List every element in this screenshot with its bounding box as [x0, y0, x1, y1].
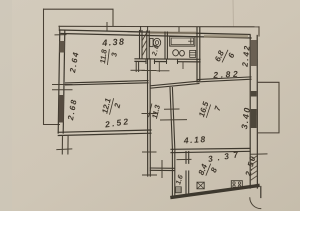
- washbasin: [173, 50, 179, 56]
- door jamb marks: [145, 59, 147, 63]
- vent stub above bath: [178, 27, 180, 32]
- living room bottom wall: [171, 147, 250, 150]
- closet left wall: [171, 152, 173, 197]
- thin outline: top-right corner drop: [258, 27, 260, 36]
- kitchen sink: [197, 182, 204, 189]
- scan fold line top: [232, 0, 235, 27]
- toilet: bowl: [153, 38, 160, 47]
- WC and bath bottom wall with door gaps: [135, 58, 200, 61]
- thin outline: upper-left annex rectangle: [44, 9, 114, 26]
- balcony outline: [258, 82, 280, 133]
- WC left wall: [146, 31, 148, 59]
- toilet: tank: [150, 38, 153, 46]
- thin outline: left outer boundary: [44, 9, 60, 124]
- room 2 bottom wall: [58, 130, 151, 132]
- kitchen label 8.4 / 8: [197, 160, 220, 180]
- WC divider stub below wall: [158, 62, 160, 72]
- left exterior wall (double line): [58, 30, 60, 133]
- room 6 label 6.8 / 6: [213, 46, 237, 68]
- room 3 door stub below WC with tick: [135, 62, 137, 72]
- bath door jamb stub: [182, 62, 184, 69]
- wall stubs above top wall at shaft: [140, 27, 142, 32]
- ticks on left wall: [53, 84, 73, 86]
- closet vent square: [175, 187, 181, 193]
- corner tick top-left: [55, 34, 66, 36]
- gas stove: [231, 181, 242, 188]
- svg-text:11.8: 11.8: [98, 48, 109, 64]
- bath right wall / room 6 left wall: [196, 28, 198, 81]
- room 6 bottom wall: [197, 77, 251, 80]
- room 3 right wall / shaft left wall: [139, 31, 141, 59]
- kitchen left wall upper segment: [185, 152, 187, 164]
- window W2 in left wall (room 2): [59, 95, 64, 123]
- tick at kitchen left wall: [177, 158, 191, 160]
- svg-text:4.18: 4.18: [182, 134, 207, 146]
- hall label 11.3: [149, 103, 163, 120]
- kitchen bottom wall (thick, sloped): [172, 186, 258, 198]
- balcony door block right wall: [251, 91, 257, 97]
- hall west wall (long vertical): [147, 59, 149, 176]
- entry door jamb and swing arc at bottom right: [260, 187, 262, 198]
- window room 6 in right wall: [251, 40, 257, 66]
- room 3 label 11.8 / 3: [98, 48, 119, 66]
- bathtub: [170, 37, 195, 47]
- wall between room 3 and room 2 (double line): [66, 81, 149, 83]
- room 7 label 16.5 / 7: [197, 100, 223, 122]
- svg-text:2.82: 2.82: [212, 69, 240, 80]
- bathtub drain: [189, 40, 193, 42]
- tick crossing corridor wall: [161, 161, 163, 178]
- kitchen window hatched block: [251, 156, 257, 180]
- top wall (double line): [60, 30, 250, 35]
- kitchen left wall lower segment: [185, 171, 187, 194]
- ticks on hall wall: [142, 70, 156, 72]
- window living room in right wall: [251, 109, 257, 128]
- room 7 top wall: [150, 81, 199, 86]
- wall stub below room2 bottom-left corner with tick: [61, 136, 63, 155]
- dark fill in top wall over bath: [150, 32, 196, 35]
- thin connector at top-left wall corner: [58, 26, 60, 30]
- room 7 left wall: [170, 88, 173, 151]
- corridor bottom wall: [150, 167, 174, 169]
- svg-text:4.38: 4.38: [101, 36, 126, 48]
- window W1 in left wall (room 3): [59, 41, 64, 53]
- tick on top thin line: [106, 23, 108, 31]
- ticks on room 7 left wall: [165, 108, 180, 110]
- WC / bath divider wall: [164, 32, 166, 59]
- shading inside top wall over room 6: [204, 35, 248, 38]
- tick right of wall at kitchen top corner: [251, 153, 267, 155]
- room 2 label 12.1 / 2: [100, 96, 123, 117]
- vent shaft diagonals: [143, 34, 147, 41]
- towel radiator: [190, 50, 196, 57]
- thin outline: top exterior face line: [59, 25, 259, 28]
- right exterior wall: [249, 36, 251, 189]
